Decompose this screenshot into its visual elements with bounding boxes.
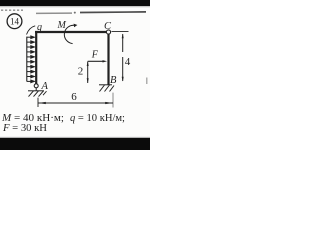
support B hatch 1 (100, 85, 105, 92)
dimension 2 bottom arrow (87, 78, 89, 83)
distributed load arrow 4 (27, 51, 34, 54)
right column CB (107, 34, 109, 84)
dimension 4 line lower segment (122, 57, 124, 81)
moment arc M (64, 25, 75, 43)
svg-text:B: B (110, 75, 117, 86)
beam AC (top horizontal member) (35, 31, 106, 33)
support B ground line (99, 84, 112, 86)
pin circle A (34, 84, 38, 88)
distributed load arrow 3 (27, 46, 34, 49)
support B hatch 2 (105, 85, 110, 92)
dimension 6 line (38, 102, 113, 104)
distributed load arrow 8 (27, 70, 34, 73)
distributed load arrow 6 (27, 61, 34, 64)
support A ground line (28, 90, 44, 92)
svg-text:F: F (91, 49, 99, 60)
page rule dotted remnant top-left (1, 9, 23, 11)
support A hatch 1 (29, 91, 34, 97)
page rule right segment (80, 11, 146, 14)
svg-text:14: 14 (10, 17, 20, 27)
support A hatch 4 (43, 91, 47, 95)
dimension 4 line upper segment (122, 34, 124, 52)
q leader curve (27, 26, 36, 35)
dimension 4 bottom arrow (122, 77, 124, 82)
svg-text:F = 30 кН: F = 30 кН (2, 123, 47, 134)
force F arrowhead (103, 60, 108, 62)
distributed load arrow 5 (27, 56, 34, 59)
bottom scan border bar (0, 138, 150, 150)
moment arc arrowhead (74, 24, 78, 28)
svg-text:4: 4 (125, 56, 131, 68)
support A stem (35, 88, 37, 91)
dimension 6 extension line at B (112, 93, 114, 108)
support A hatch 2 (34, 91, 39, 97)
dimension 4 top arrow (122, 34, 124, 39)
dimension 2 top arrow (87, 61, 89, 66)
distributed load arrow 2 (27, 41, 34, 44)
distributed load arrow 9 (27, 75, 34, 78)
svg-text:M: M (57, 20, 67, 31)
distributed load arrow 10 (27, 80, 34, 83)
svg-text:q: q (37, 22, 42, 33)
distributed load arrow 1 (27, 36, 34, 39)
dimension 4 extension line at C (112, 31, 129, 33)
distributed load tail line (26, 37, 28, 82)
svg-text:6: 6 (71, 91, 77, 103)
top scan border bar (0, 0, 150, 6)
dimension 6 extension line at A (37, 98, 39, 107)
page rule dot (74, 12, 76, 14)
dimension 2 line (87, 62, 89, 84)
dimension 6 right arrow (105, 102, 113, 104)
page rule left segment (36, 12, 72, 14)
dimension 6 left arrow (38, 102, 46, 104)
stray mark right edge (146, 78, 148, 85)
svg-text:C: C (104, 21, 112, 32)
force F line (88, 60, 103, 62)
hinge circle C (106, 30, 110, 34)
support A hatch 3 (39, 91, 44, 97)
svg-text:q = 10 кН/м;: q = 10 кН/м; (70, 113, 125, 124)
support B hatch 3 (110, 86, 115, 92)
left column (member at A) (35, 31, 37, 84)
problem number circle (7, 14, 22, 29)
svg-text:2: 2 (78, 65, 84, 77)
distributed load arrow 7 (27, 65, 34, 68)
